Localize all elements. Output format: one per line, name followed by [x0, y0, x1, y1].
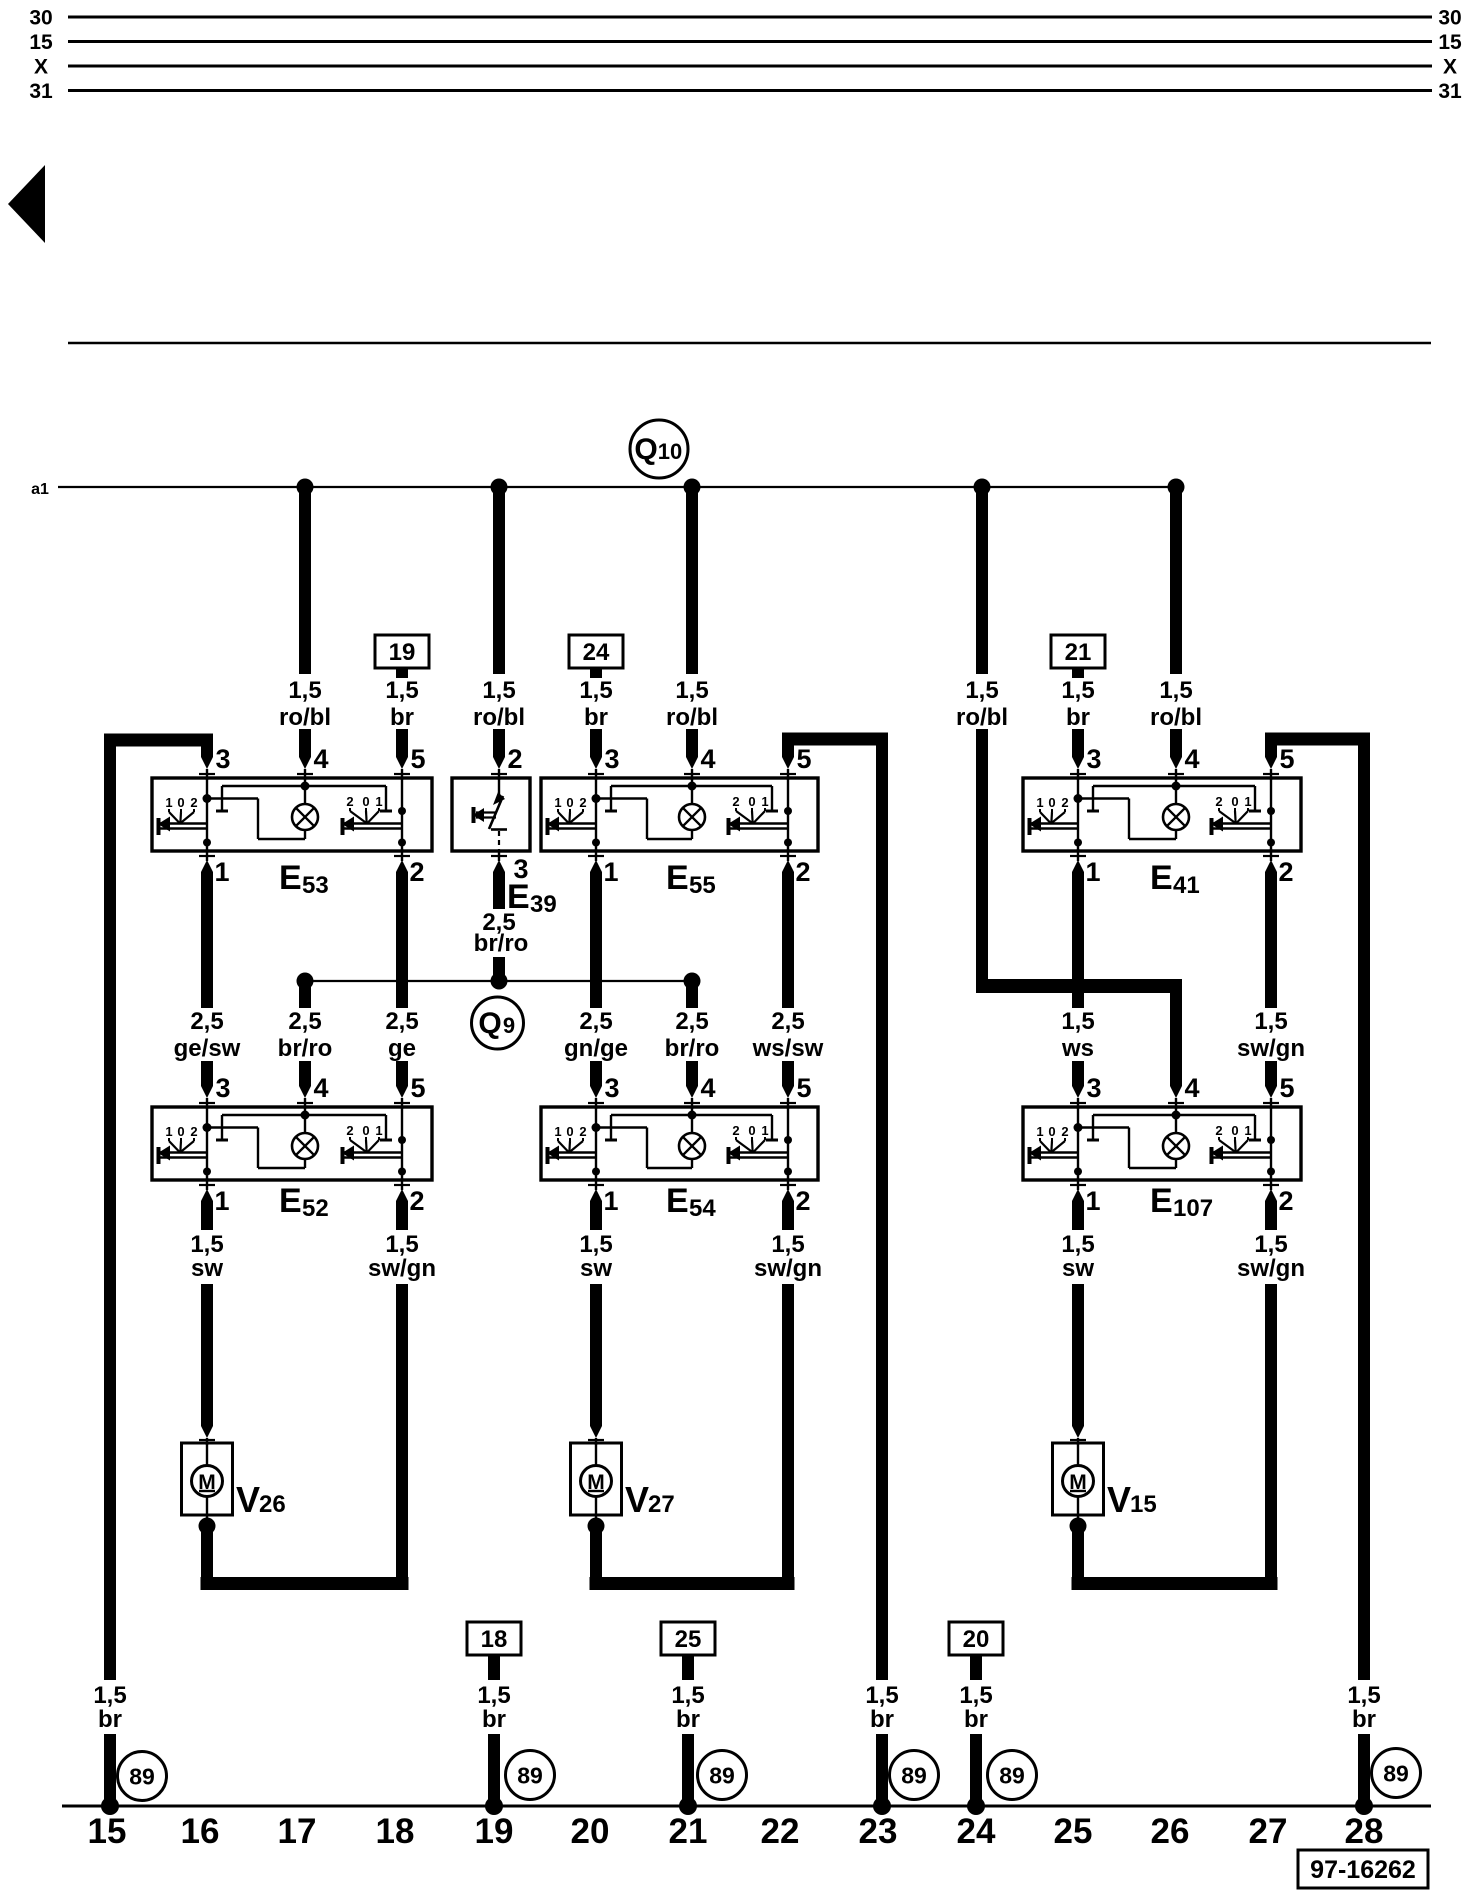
svg-text:1,5: 1,5 — [385, 1231, 418, 1258]
svg-text:br: br — [676, 1706, 700, 1733]
svg-text:97-16262: 97-16262 — [1310, 1856, 1416, 1884]
svg-text:br: br — [870, 1706, 894, 1733]
svg-text:2: 2 — [732, 794, 739, 809]
svg-text:4: 4 — [1184, 744, 1199, 774]
svg-text:21: 21 — [669, 1812, 708, 1851]
svg-text:1: 1 — [603, 857, 618, 887]
svg-text:0: 0 — [748, 1123, 755, 1138]
svg-text:5: 5 — [796, 744, 811, 774]
svg-text:1: 1 — [375, 1123, 382, 1138]
svg-text:0: 0 — [362, 1123, 369, 1138]
svg-text:br: br — [482, 1706, 506, 1733]
svg-text:15: 15 — [88, 1812, 127, 1851]
svg-text:ro/bl: ro/bl — [279, 704, 331, 731]
svg-text:1: 1 — [554, 1124, 561, 1139]
svg-text:1: 1 — [1085, 857, 1100, 887]
svg-text:2: 2 — [346, 1123, 353, 1138]
svg-text:19: 19 — [475, 1812, 514, 1851]
svg-text:sw/gn: sw/gn — [1237, 1035, 1305, 1062]
svg-text:0: 0 — [1231, 1123, 1238, 1138]
svg-text:5: 5 — [1279, 744, 1294, 774]
svg-text:ro/bl: ro/bl — [1150, 704, 1202, 731]
svg-text:sw/gn: sw/gn — [368, 1255, 436, 1282]
svg-text:Q: Q — [478, 1007, 501, 1040]
svg-text:0: 0 — [1048, 795, 1055, 810]
svg-text:E: E — [279, 859, 302, 897]
svg-text:24: 24 — [583, 639, 610, 666]
svg-text:16: 16 — [181, 1812, 220, 1851]
svg-text:2: 2 — [1215, 794, 1222, 809]
svg-text:ws: ws — [1061, 1035, 1094, 1062]
svg-text:1,5: 1,5 — [93, 1682, 126, 1709]
svg-text:4: 4 — [700, 1073, 715, 1103]
svg-text:1,5: 1,5 — [190, 1231, 223, 1258]
svg-text:X: X — [1443, 56, 1457, 79]
svg-text:2: 2 — [1278, 1186, 1293, 1216]
svg-text:2: 2 — [1061, 795, 1068, 810]
svg-text:2: 2 — [1061, 1124, 1068, 1139]
svg-text:1,5: 1,5 — [965, 677, 998, 704]
svg-text:0: 0 — [1231, 794, 1238, 809]
svg-text:27: 27 — [1249, 1812, 1288, 1851]
svg-text:br: br — [390, 704, 414, 731]
svg-text:5: 5 — [796, 1073, 811, 1103]
svg-text:28: 28 — [1345, 1812, 1384, 1851]
svg-text:54: 54 — [689, 1195, 716, 1222]
svg-text:br/ro: br/ro — [474, 930, 529, 957]
svg-text:2: 2 — [409, 1186, 424, 1216]
svg-text:23: 23 — [859, 1812, 898, 1851]
svg-text:4: 4 — [700, 744, 715, 774]
svg-text:89: 89 — [709, 1763, 735, 1789]
svg-text:sw/gn: sw/gn — [1237, 1255, 1305, 1282]
svg-text:18: 18 — [481, 1626, 508, 1653]
svg-text:1: 1 — [1244, 1123, 1251, 1138]
svg-text:2: 2 — [579, 1124, 586, 1139]
svg-text:2: 2 — [1215, 1123, 1222, 1138]
svg-text:3: 3 — [1086, 744, 1101, 774]
svg-text:2,5: 2,5 — [771, 1008, 804, 1035]
svg-text:15: 15 — [1130, 1491, 1157, 1518]
svg-text:1,5: 1,5 — [1254, 1008, 1287, 1035]
svg-text:1,5: 1,5 — [1159, 677, 1192, 704]
svg-text:gn/ge: gn/ge — [564, 1035, 628, 1062]
svg-text:4: 4 — [1184, 1073, 1199, 1103]
svg-text:E: E — [666, 1182, 689, 1220]
svg-text:2: 2 — [409, 857, 424, 887]
svg-text:1,5: 1,5 — [1061, 677, 1094, 704]
svg-text:0: 0 — [1048, 1124, 1055, 1139]
svg-text:1,5: 1,5 — [482, 677, 515, 704]
svg-text:31: 31 — [29, 80, 53, 103]
svg-text:1: 1 — [214, 857, 229, 887]
svg-text:0: 0 — [566, 1124, 573, 1139]
svg-text:1: 1 — [1036, 1124, 1043, 1139]
svg-text:25: 25 — [675, 1626, 702, 1653]
svg-text:br/ro: br/ro — [665, 1035, 720, 1062]
svg-text:1,5: 1,5 — [579, 677, 612, 704]
svg-text:br: br — [584, 704, 608, 731]
svg-text:89: 89 — [901, 1763, 927, 1789]
svg-text:ro/bl: ro/bl — [956, 704, 1008, 731]
svg-text:1: 1 — [603, 1186, 618, 1216]
svg-text:1: 1 — [1036, 795, 1043, 810]
svg-text:26: 26 — [259, 1491, 286, 1518]
svg-text:31: 31 — [1438, 80, 1462, 103]
svg-text:20: 20 — [963, 1626, 990, 1653]
svg-text:1: 1 — [375, 794, 382, 809]
svg-text:1,5: 1,5 — [1061, 1008, 1094, 1035]
svg-text:1,5: 1,5 — [771, 1231, 804, 1258]
svg-text:1,5: 1,5 — [671, 1682, 704, 1709]
svg-text:22: 22 — [761, 1812, 800, 1851]
svg-text:E: E — [279, 1182, 302, 1220]
svg-text:2: 2 — [346, 794, 353, 809]
svg-text:5: 5 — [1279, 1073, 1294, 1103]
svg-text:2: 2 — [507, 744, 522, 774]
svg-text:52: 52 — [302, 1195, 329, 1222]
svg-text:sw/gn: sw/gn — [754, 1255, 822, 1282]
svg-text:ro/bl: ro/bl — [666, 704, 718, 731]
svg-text:2: 2 — [190, 795, 197, 810]
svg-text:18: 18 — [376, 1812, 415, 1851]
svg-text:19: 19 — [389, 639, 416, 666]
svg-text:30: 30 — [1438, 7, 1461, 30]
svg-text:V: V — [625, 1479, 649, 1520]
svg-text:3: 3 — [604, 744, 619, 774]
svg-text:0: 0 — [566, 795, 573, 810]
svg-text:1,5: 1,5 — [959, 1682, 992, 1709]
svg-text:30: 30 — [29, 7, 52, 30]
svg-text:sw: sw — [580, 1255, 612, 1282]
svg-text:5: 5 — [410, 1073, 425, 1103]
svg-text:2,5: 2,5 — [675, 1008, 708, 1035]
svg-text:2,5: 2,5 — [385, 1008, 418, 1035]
svg-text:0: 0 — [748, 794, 755, 809]
svg-text:15: 15 — [29, 31, 53, 54]
svg-text:15: 15 — [1438, 31, 1462, 54]
svg-text:39: 39 — [530, 891, 557, 918]
svg-text:2: 2 — [795, 857, 810, 887]
svg-text:0: 0 — [177, 1124, 184, 1139]
svg-text:24: 24 — [957, 1812, 996, 1851]
svg-text:1,5: 1,5 — [1347, 1682, 1380, 1709]
svg-text:1: 1 — [214, 1186, 229, 1216]
svg-text:1,5: 1,5 — [288, 677, 321, 704]
svg-text:2: 2 — [579, 795, 586, 810]
svg-text:1,5: 1,5 — [1061, 1231, 1094, 1258]
svg-text:br: br — [1066, 704, 1090, 731]
svg-text:sw: sw — [1062, 1255, 1094, 1282]
svg-text:3: 3 — [1086, 1073, 1101, 1103]
svg-text:1,5: 1,5 — [385, 677, 418, 704]
svg-text:0: 0 — [362, 794, 369, 809]
svg-text:1,5: 1,5 — [865, 1682, 898, 1709]
svg-text:br: br — [964, 1706, 988, 1733]
svg-text:1,5: 1,5 — [1254, 1231, 1287, 1258]
svg-text:1: 1 — [1085, 1186, 1100, 1216]
svg-text:55: 55 — [689, 872, 716, 899]
svg-text:89: 89 — [517, 1763, 543, 1789]
svg-text:br: br — [98, 1706, 122, 1733]
svg-text:0: 0 — [177, 795, 184, 810]
svg-text:5: 5 — [410, 744, 425, 774]
svg-text:1,5: 1,5 — [579, 1231, 612, 1258]
svg-text:ge/sw: ge/sw — [174, 1035, 241, 1062]
svg-text:25: 25 — [1054, 1812, 1093, 1851]
svg-text:26: 26 — [1151, 1812, 1190, 1851]
svg-text:4: 4 — [313, 1073, 328, 1103]
svg-text:1: 1 — [761, 1123, 768, 1138]
svg-text:107: 107 — [1173, 1195, 1213, 1222]
svg-text:27: 27 — [648, 1491, 675, 1518]
svg-text:br: br — [1352, 1706, 1376, 1733]
svg-text:21: 21 — [1065, 639, 1092, 666]
svg-text:E: E — [1150, 1182, 1173, 1220]
svg-text:E: E — [666, 859, 689, 897]
svg-text:ws/sw: ws/sw — [752, 1035, 824, 1062]
svg-text:20: 20 — [571, 1812, 610, 1851]
svg-text:V: V — [1107, 1479, 1131, 1520]
svg-text:3: 3 — [215, 1073, 230, 1103]
svg-text:1: 1 — [165, 795, 172, 810]
svg-text:1: 1 — [1244, 794, 1251, 809]
svg-text:ge: ge — [388, 1035, 416, 1062]
svg-text:1: 1 — [761, 794, 768, 809]
svg-text:1,5: 1,5 — [675, 677, 708, 704]
svg-text:10: 10 — [658, 439, 682, 464]
svg-text:a1: a1 — [31, 481, 49, 498]
svg-text:41: 41 — [1173, 872, 1200, 899]
svg-text:53: 53 — [302, 872, 329, 899]
svg-text:sw: sw — [191, 1255, 223, 1282]
svg-text:3: 3 — [215, 744, 230, 774]
svg-text:2,5: 2,5 — [190, 1008, 223, 1035]
svg-text:2: 2 — [795, 1186, 810, 1216]
svg-text:3: 3 — [604, 1073, 619, 1103]
svg-text:89: 89 — [129, 1764, 155, 1790]
svg-text:4: 4 — [313, 744, 328, 774]
svg-text:X: X — [34, 56, 48, 79]
svg-text:2,5: 2,5 — [288, 1008, 321, 1035]
svg-text:2,5: 2,5 — [579, 1008, 612, 1035]
svg-text:Q: Q — [634, 433, 657, 466]
svg-text:E: E — [1150, 859, 1173, 897]
svg-text:17: 17 — [278, 1812, 317, 1851]
svg-text:1: 1 — [165, 1124, 172, 1139]
svg-text:2: 2 — [1278, 857, 1293, 887]
svg-text:1,5: 1,5 — [477, 1682, 510, 1709]
svg-text:89: 89 — [1383, 1761, 1409, 1787]
svg-text:br/ro: br/ro — [278, 1035, 333, 1062]
svg-text:1: 1 — [554, 795, 561, 810]
svg-text:2: 2 — [732, 1123, 739, 1138]
svg-text:ro/bl: ro/bl — [473, 704, 525, 731]
svg-text:89: 89 — [999, 1763, 1025, 1789]
svg-text:2: 2 — [190, 1124, 197, 1139]
svg-text:V: V — [236, 1479, 260, 1520]
svg-text:9: 9 — [503, 1013, 515, 1038]
